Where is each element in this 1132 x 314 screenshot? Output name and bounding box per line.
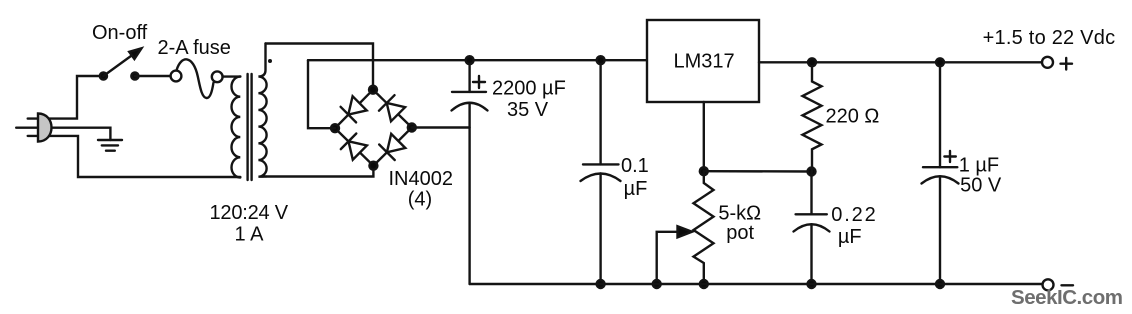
capacitor C1 bottom lead to bottom rail (468, 103, 470, 284)
diode D2 (top-right) (379, 95, 405, 121)
svg-text:µF: µF (624, 178, 648, 200)
svg-text:120:24 V: 120:24 V (210, 202, 289, 224)
svg-text:IN4002: IN4002 (389, 168, 454, 190)
diode D1 (top-left) (341, 96, 367, 122)
bridge rectifier frame (335, 90, 412, 166)
svg-text:220 Ω: 220 Ω (826, 105, 880, 127)
label 5-kOhm (718, 203, 761, 225)
transformer phase dot (268, 59, 272, 63)
watermark SeekIC.com (1011, 286, 1123, 309)
node: pot bottom to rail (700, 280, 708, 288)
capacitor C3 plates (794, 214, 830, 231)
node: bridge - (right) (408, 124, 416, 132)
capacitor C2 0.1uF leads (599, 60, 601, 284)
wire: bridge - to C1 bottom (412, 126, 470, 128)
label 0.1 (621, 155, 649, 177)
node: C4 bottom junction (936, 280, 944, 288)
label 1 A (235, 224, 265, 246)
svg-text:+1.5 to 22 Vdc: +1.5 to 22 Vdc (983, 27, 1116, 49)
wire: plug neutral prong to bottom rail (28, 136, 241, 177)
svg-text:0.1: 0.1 (621, 155, 649, 177)
svg-text:50 V: 50 V (960, 175, 1002, 197)
node: C1 top junction (466, 56, 474, 64)
label pot (726, 222, 754, 244)
capacitor C3 0.22uF leads (810, 172, 812, 285)
transformer T1 primary winding (232, 77, 241, 178)
wire: top rail (output side) (759, 61, 1042, 63)
label 220 Ohm (826, 105, 880, 127)
label 50 V (960, 175, 1002, 197)
diode D3 (bottom-left) (341, 134, 367, 160)
terminal: - output (1043, 279, 1054, 290)
wire: LM317 ADJ pin down (703, 102, 705, 171)
label uF (C2) (624, 178, 648, 200)
node: C2 top junction (597, 56, 605, 64)
node: bridge + (left) (331, 124, 339, 132)
label 120:24 V (210, 202, 289, 224)
wire: fuse to transformer primary (223, 75, 241, 77)
label 35 V (507, 99, 549, 121)
fuse F1 2-A (171, 59, 223, 98)
svg-text:1 µF: 1 µF (959, 155, 999, 177)
capacitor C2 plates (581, 164, 621, 181)
svg-text:pot: pot (726, 222, 754, 244)
node: ADJ junction right (808, 168, 816, 176)
node: wiper to bottom rail (653, 280, 661, 288)
wire: bridge + to top rail (308, 60, 335, 128)
wire: secondary bottom to bridge AC2 (266, 166, 373, 177)
capacitor C4 plates (922, 167, 959, 183)
transformer T1 secondary winding (258, 44, 266, 177)
node: C3 bottom junction (808, 280, 816, 288)
op-amp U1 LM317 box (647, 20, 759, 102)
label + (output) (1061, 58, 1073, 70)
node: bridge AC1 (top) (369, 86, 377, 94)
wire: top rail (input side) (308, 59, 647, 61)
capacitor C1 plates (452, 92, 488, 111)
capacitor C1 2200uF top lead (468, 60, 470, 92)
ac plug P1 (38, 114, 52, 142)
wire: ADJ node to R1/C3 junction (704, 170, 812, 173)
label 2-A fuse (158, 37, 231, 59)
svg-text:1 A: 1 A (235, 224, 265, 246)
label - (output) (1062, 284, 1074, 286)
transformer T1 core (248, 74, 252, 180)
potentiometer wiper arrow (657, 226, 692, 284)
node: bridge AC2 (bottom) (369, 162, 377, 170)
ground (98, 140, 122, 151)
label 1 uF (959, 155, 999, 177)
svg-text:LM317: LM317 (674, 51, 735, 73)
label LM317 (674, 51, 735, 73)
label (4) (408, 189, 432, 211)
svg-text:35 V: 35 V (507, 99, 549, 121)
capacitor C1 plus sign (473, 76, 485, 88)
node: C4 top junction (936, 58, 944, 66)
wire: switch to fuse (135, 75, 171, 77)
svg-text:SeekIC.com: SeekIC.com (1011, 286, 1123, 309)
svg-text:2200 µF: 2200 µF (492, 78, 566, 100)
capacitor C4 plus sign (944, 151, 955, 162)
diode D4 (bottom-right) (379, 134, 405, 160)
label 2200 uF (492, 78, 566, 100)
wire: plug hot prong to switch riser (28, 76, 104, 119)
wire: secondary top to bridge AC1 (266, 44, 374, 90)
svg-text:On-off: On-off (92, 22, 148, 44)
potentiometer R2 5-kOhm (694, 171, 714, 284)
label IN4002 (389, 168, 454, 190)
label On-off (92, 22, 148, 44)
terminal: + output (1042, 57, 1053, 68)
resistor R1 220 Ohm (803, 62, 822, 171)
wire: bottom rail (470, 283, 1043, 285)
label +1.5 to 22 Vdc (983, 27, 1116, 49)
svg-text:0.22: 0.22 (831, 204, 876, 226)
node: R1 top junction (808, 58, 816, 66)
node: ADJ junction left (700, 167, 708, 175)
switch S1 On-off (100, 48, 142, 79)
svg-text:(4): (4) (408, 189, 432, 211)
svg-text:2-A fuse: 2-A fuse (158, 37, 231, 59)
node: C2 bottom junction (597, 280, 605, 288)
svg-text:µF: µF (838, 226, 862, 248)
wire: plug ground prong to earth (16, 128, 110, 140)
label 0.22 (831, 204, 876, 226)
capacitor C4 1uF leads (939, 62, 941, 284)
label uF (C3) (838, 226, 862, 248)
